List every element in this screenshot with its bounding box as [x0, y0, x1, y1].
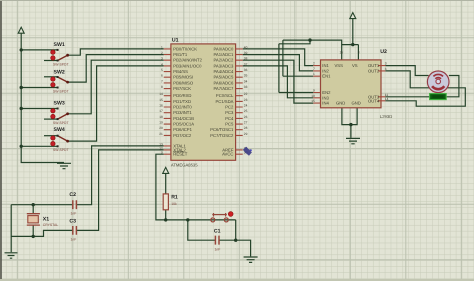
svg-text:21: 21: [159, 132, 163, 136]
svg-text:SW1: SW1: [54, 42, 65, 48]
svg-text:SW-SPDT: SW-SPDT: [53, 89, 69, 93]
svg-text:PB7/SCK: PB7/SCK: [173, 86, 191, 91]
svg-text:1: 1: [161, 45, 163, 49]
svg-text:PA1/ADC1: PA1/ADC1: [213, 52, 234, 57]
svg-text:14: 14: [385, 97, 389, 101]
svg-text:38: 38: [244, 57, 248, 61]
svg-text:PC5: PC5: [225, 122, 234, 127]
svg-text:10k: 10k: [171, 202, 177, 206]
svg-text:PC1/SDA: PC1/SDA: [215, 99, 233, 104]
svg-text:14: 14: [159, 92, 163, 96]
svg-text:PA2/ADC2: PA2/ADC2: [213, 58, 234, 63]
svg-text:PC0/SCL: PC0/SCL: [216, 93, 234, 98]
svg-text:PA5/ADC5: PA5/ADC5: [213, 75, 234, 80]
svg-text:8: 8: [161, 85, 163, 89]
svg-text:X1: X1: [43, 217, 49, 223]
svg-text:5: 5: [161, 68, 163, 72]
svg-text:SW-SPDT: SW-SPDT: [53, 62, 69, 66]
svg-text:2: 2: [161, 51, 163, 55]
svg-text:40: 40: [244, 45, 248, 49]
svg-text:CRYSTAL: CRYSTAL: [43, 223, 58, 227]
svg-text:PD2/INT0: PD2/INT0: [173, 105, 192, 110]
svg-text:U2: U2: [380, 49, 387, 55]
svg-text:10: 10: [311, 94, 315, 98]
svg-text:PB0/T0/XCK: PB0/T0/XCK: [173, 46, 197, 51]
svg-text:C2: C2: [69, 192, 76, 198]
svg-text:6: 6: [161, 74, 163, 78]
svg-text:PC3: PC3: [225, 110, 234, 115]
svg-text:34: 34: [244, 79, 248, 83]
svg-text:PA7/ADC7: PA7/ADC7: [213, 86, 234, 91]
svg-text:27: 27: [244, 121, 248, 125]
svg-text:PD7/OC2: PD7/OC2: [173, 133, 192, 138]
svg-text:PC4: PC4: [225, 116, 234, 121]
svg-text:PC2: PC2: [225, 105, 234, 110]
svg-text:28: 28: [244, 126, 248, 130]
svg-text:3: 3: [161, 57, 163, 61]
svg-text:7: 7: [161, 79, 163, 83]
svg-text:PB4/SS: PB4/SS: [173, 69, 188, 74]
svg-text:VSS: VSS: [335, 63, 344, 68]
svg-text:PB1/T1: PB1/T1: [173, 52, 188, 57]
svg-text:PB6/MISO: PB6/MISO: [173, 80, 194, 85]
svg-text:15: 15: [159, 98, 163, 102]
svg-text:PA6/ADC6: PA6/ADC6: [213, 80, 234, 85]
svg-text:PB2/AIN0/INT2: PB2/AIN0/INT2: [173, 58, 202, 63]
svg-text:PA3/ADC3: PA3/ADC3: [213, 63, 234, 68]
svg-text:16: 16: [339, 51, 343, 55]
svg-text:1: 1: [313, 72, 315, 76]
svg-text:20: 20: [159, 126, 163, 130]
svg-text:SW-SPDT: SW-SPDT: [53, 148, 69, 152]
svg-text:25: 25: [244, 109, 248, 113]
svg-text:ATMEGA8535: ATMEGA8535: [171, 162, 198, 167]
svg-text:24: 24: [244, 103, 248, 107]
svg-text:PC7/TOSC2: PC7/TOSC2: [210, 133, 234, 138]
svg-text:PA4/ADC4: PA4/ADC4: [213, 69, 234, 74]
svg-text:1nF: 1nF: [71, 237, 77, 241]
svg-text:PD0/RXD: PD0/RXD: [173, 93, 191, 98]
svg-text:9: 9: [161, 151, 163, 155]
svg-text:VS: VS: [352, 63, 358, 68]
svg-text:23: 23: [244, 98, 248, 102]
svg-text:C1: C1: [214, 229, 221, 235]
svg-text:PD6/ICP1: PD6/ICP1: [173, 127, 192, 132]
svg-text:37: 37: [244, 62, 248, 66]
svg-text:18: 18: [159, 115, 163, 119]
svg-text:22: 22: [244, 92, 248, 96]
svg-text:OUT1: OUT1: [368, 63, 380, 68]
svg-text:6: 6: [385, 67, 387, 71]
svg-text:OUT2: OUT2: [368, 68, 380, 73]
svg-text:39: 39: [244, 51, 248, 55]
svg-text:PD1/TXD: PD1/TXD: [173, 99, 191, 104]
svg-text:R1: R1: [171, 194, 178, 200]
svg-text:4: 4: [161, 62, 163, 66]
svg-text:2: 2: [313, 62, 315, 66]
svg-text:9: 9: [313, 89, 315, 93]
svg-text:RESET: RESET: [173, 152, 187, 157]
svg-text:SW3: SW3: [54, 100, 65, 106]
svg-text:PD4/OC1B: PD4/OC1B: [173, 116, 194, 121]
svg-text:EN1: EN1: [322, 74, 331, 79]
svg-text:33: 33: [244, 85, 248, 89]
svg-text:IN4: IN4: [322, 101, 329, 106]
svg-text:IN1: IN1: [322, 63, 329, 68]
svg-text:SW2: SW2: [54, 69, 65, 75]
svg-text:19: 19: [159, 121, 163, 125]
svg-text:C3: C3: [69, 218, 76, 224]
svg-text:AVCC: AVCC: [222, 152, 233, 157]
svg-text:35: 35: [244, 74, 248, 78]
svg-text:IN3: IN3: [322, 95, 329, 100]
svg-text:7: 7: [313, 67, 315, 71]
svg-text:U1: U1: [172, 38, 179, 44]
svg-text:L293D: L293D: [380, 114, 392, 119]
svg-text:SW-SPDT: SW-SPDT: [53, 121, 69, 125]
svg-text:OUT4: OUT4: [368, 98, 380, 103]
svg-text:PD3/INT1: PD3/INT1: [173, 110, 192, 115]
svg-text:17: 17: [159, 109, 163, 113]
svg-text:PB5/MOSI: PB5/MOSI: [173, 75, 193, 80]
svg-text:GND: GND: [336, 101, 345, 106]
svg-text:26: 26: [244, 115, 248, 119]
svg-text:PB3/AIN1/OC0: PB3/AIN1/OC0: [173, 63, 202, 68]
svg-text:PA0/ADC0: PA0/ADC0: [213, 46, 234, 51]
svg-text:29: 29: [244, 132, 248, 136]
svg-text:PD5/OC1A: PD5/OC1A: [173, 122, 194, 127]
svg-text:16: 16: [159, 103, 163, 107]
svg-text:EN2: EN2: [322, 90, 331, 95]
svg-text:PC6/TOSC1: PC6/TOSC1: [210, 127, 234, 132]
svg-text:36: 36: [244, 68, 248, 72]
svg-text:1nF: 1nF: [71, 211, 77, 215]
svg-text:IN2: IN2: [322, 68, 329, 73]
svg-text:15: 15: [311, 99, 315, 103]
svg-text:1nF: 1nF: [215, 248, 221, 252]
svg-text:8: 8: [358, 51, 360, 55]
svg-text:SW4: SW4: [54, 127, 65, 133]
svg-text:3: 3: [385, 62, 387, 66]
svg-text:GND: GND: [352, 101, 361, 106]
